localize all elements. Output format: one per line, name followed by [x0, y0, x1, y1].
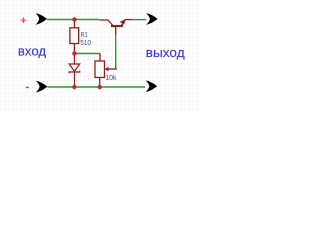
resistor R1	[70, 20, 79, 54]
wire to potentiometer top	[74, 53, 100, 55]
transistor Q1	[99, 20, 132, 35]
wire bottom rail	[47, 86, 145, 88]
zener diode	[69, 54, 80, 88]
svg-text:510: 510	[80, 38, 91, 47]
junction zener / bottom rail	[72, 85, 76, 89]
output + terminal arrow	[146, 13, 157, 25]
wire top rail right	[133, 19, 146, 21]
input + terminal arrow	[36, 13, 47, 25]
svg-text:10k: 10k	[105, 73, 117, 82]
wire base	[115, 35, 117, 69]
wire top rail left	[47, 19, 99, 21]
plus	[21, 18, 27, 23]
junction potentiometer / bottom rail	[98, 85, 102, 89]
svg-text:выход: выход	[146, 45, 185, 60]
minus	[26, 86, 29, 88]
potentiometer wiper arrow	[105, 67, 109, 72]
potentiometer 10k	[95, 54, 117, 88]
transistor emitter arrow	[120, 19, 126, 25]
output - terminal arrow	[146, 80, 157, 92]
junction R1 / zener / wire	[72, 51, 76, 55]
svg-text:вход: вход	[18, 43, 47, 58]
junction top rail / R1	[72, 17, 76, 21]
input - terminal arrow	[36, 81, 47, 93]
